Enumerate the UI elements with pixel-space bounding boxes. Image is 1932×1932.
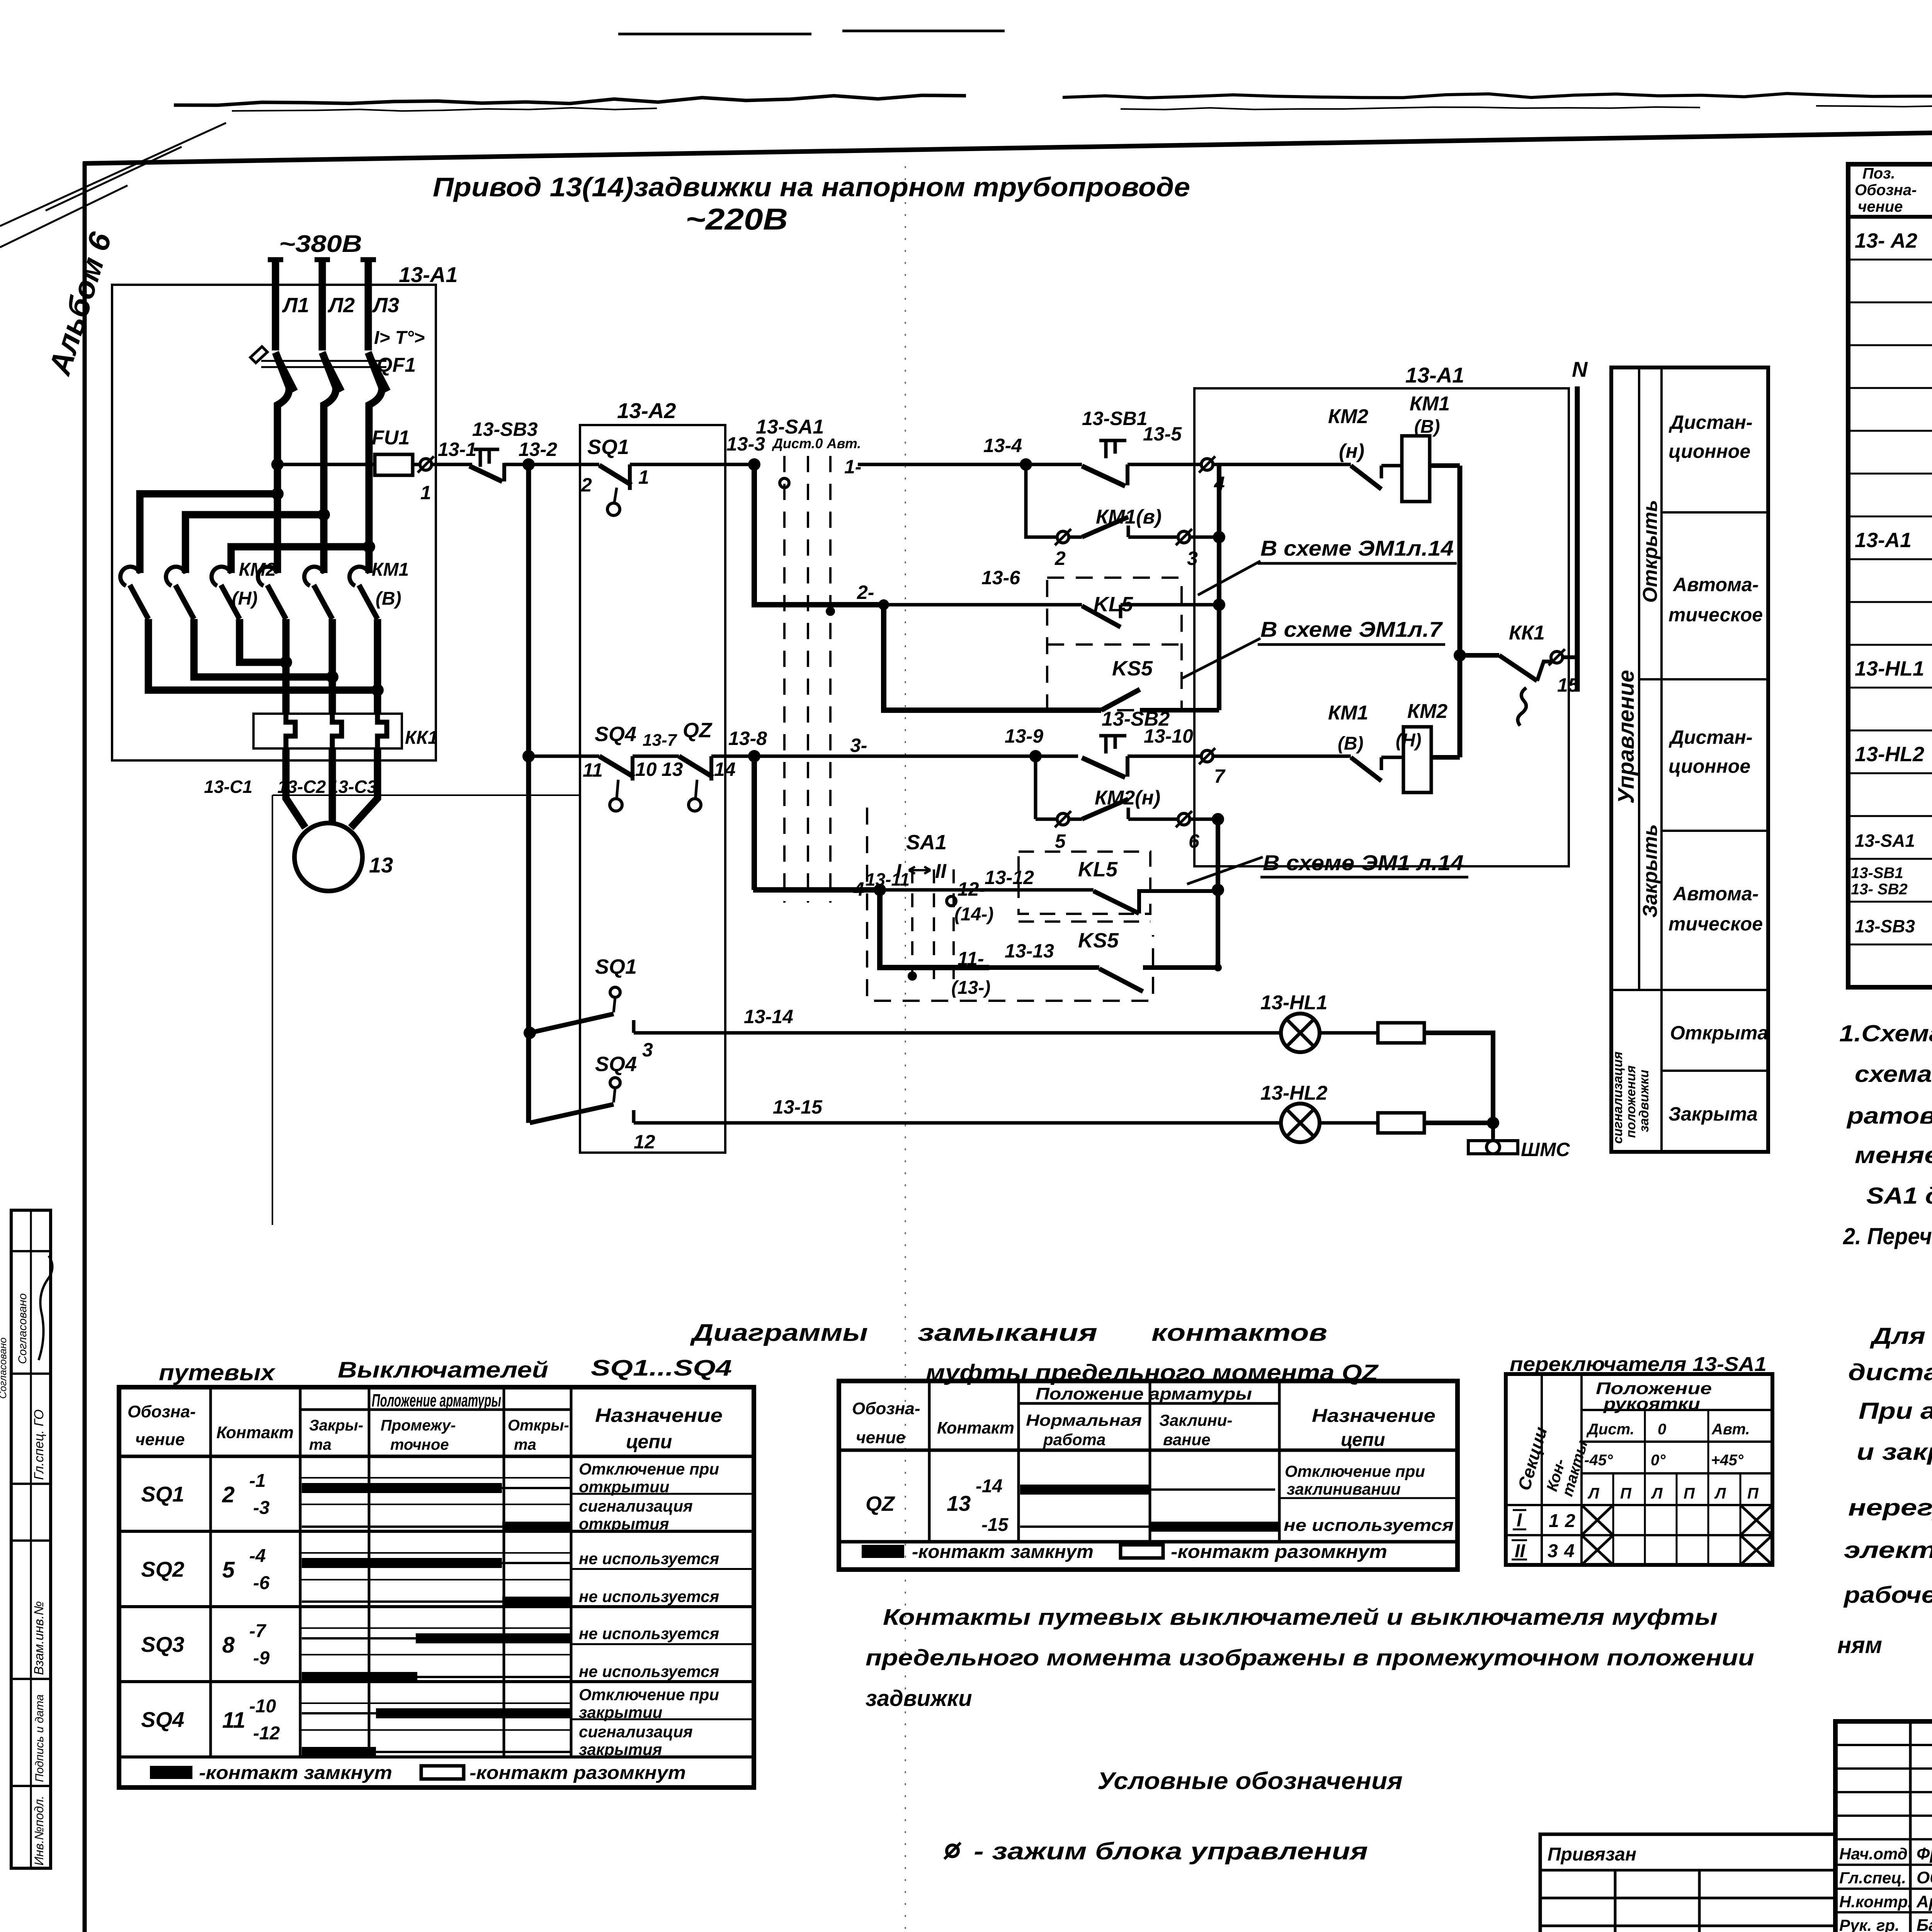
svg-text:Автома-: Автома- — [1672, 574, 1759, 595]
limit switch SQ4 lamp blade — [530, 1104, 614, 1123]
junction 13-2 — [522, 458, 535, 471]
terminal 1 — [420, 459, 432, 470]
svg-text:Открыта: Открыта — [1670, 1022, 1768, 1044]
phase line L1 — [268, 257, 283, 262]
svg-text:SQ4: SQ4 — [141, 1708, 184, 1732]
svg-text:-контакт замкнут: -контакт замкнут — [199, 1763, 392, 1783]
svg-text:При автоматическом управле: При автоматическом управлении задвижки о… — [1859, 1398, 1932, 1424]
svg-text:Привязан: Привязан — [1548, 1844, 1636, 1865]
bus 13-8 vertical — [752, 756, 757, 890]
svg-text:Нормальная: Нормальная — [1026, 1411, 1142, 1429]
junction KL5 bus — [1213, 599, 1225, 611]
svg-text:11: 11 — [222, 1708, 245, 1733]
SQ table half divider row 3 — [571, 1643, 754, 1645]
terminal 3 aux — [1178, 531, 1190, 543]
svg-text:13-11: 13-11 — [866, 869, 910, 889]
junction KK1 node — [1454, 649, 1466, 662]
svg-text:заклинивании: заклинивании — [1287, 1480, 1401, 1498]
svg-text:SQ4: SQ4 — [595, 1053, 637, 1076]
SQ table header polozhenie armatury — [300, 1408, 571, 1411]
wire terminal6 to bus — [1189, 818, 1218, 821]
svg-text:13- SB2: 13- SB2 — [1851, 881, 1908, 898]
wire coil KM1 to right bus — [1430, 463, 1460, 468]
right return bus lower — [1458, 655, 1463, 757]
svg-text:5: 5 — [1055, 830, 1066, 852]
svg-text:сигнализация: сигнализация — [579, 1497, 693, 1515]
wire aux KM1v — [1068, 536, 1082, 539]
wire KM2n aux row entry — [1036, 818, 1058, 821]
svg-text:13-15: 13-15 — [773, 1096, 823, 1118]
SQ4 bar upper closed — [376, 1708, 571, 1718]
wire terminal4 to KM2 contact — [1213, 463, 1351, 466]
svg-text:SQ2: SQ2 — [141, 1557, 184, 1582]
aux contact KM2n fixed — [1380, 466, 1383, 478]
wire crossover feed KM2 pole 2 — [185, 515, 324, 573]
svg-text:открытия: открытия — [579, 1515, 669, 1533]
svg-text:и закрываются от уровня вкл: и закрываются от уровня включения I рабо… — [1857, 1439, 1932, 1465]
svg-text:Л2: Л2 — [327, 294, 355, 317]
svg-text:KL5: KL5 — [1078, 858, 1118, 881]
wire phase 2 down — [322, 352, 336, 573]
limit switch SQ1 lever stem — [614, 488, 617, 502]
svg-text:-7: -7 — [249, 1621, 267, 1641]
svg-text:13-А1: 13-А1 — [1405, 363, 1464, 387]
relay contact KL5 fixed — [1119, 605, 1122, 618]
wire SB2 to terminal 7 — [1128, 755, 1202, 758]
contactor pole arc 4 — [258, 567, 277, 586]
svg-text:1: 1 — [638, 466, 649, 488]
svg-text:рабочего насоса при работе: рабочего насоса при работе по дискретным… — [1843, 1582, 1932, 1608]
svg-text:13-13: 13-13 — [1005, 940, 1054, 962]
svg-text:замыкания: замыкания — [918, 1320, 1097, 1346]
aux contact KM1v fixed — [1127, 526, 1130, 537]
right return bus upper — [1458, 466, 1463, 655]
svg-text:QZ: QZ — [683, 719, 713, 742]
svg-text:Обозна-: Обозна- — [852, 1399, 920, 1418]
privyazan box outer — [1540, 1834, 1835, 1932]
aux contact KM1B fixed — [1380, 757, 1383, 770]
svg-text:Н.контр.: Н.контр. — [1839, 1893, 1912, 1911]
svg-text:12: 12 — [634, 1131, 655, 1153]
wire row4 from bus — [753, 887, 880, 893]
box 13-A2 — [580, 425, 725, 1153]
svg-text:Взам.инв.№: Взам.инв.№ — [32, 1601, 46, 1675]
phase line L3 — [361, 257, 376, 262]
svg-text:не используется: не используется — [579, 1549, 719, 1568]
svg-text:13: 13 — [369, 853, 393, 877]
svg-text:QZ: QZ — [866, 1492, 895, 1515]
svg-text:11-: 11- — [957, 948, 984, 969]
svg-text:Контакт: Контакт — [937, 1418, 1014, 1437]
svg-text:Дистан-: Дистан- — [1668, 726, 1753, 748]
wire KL5 to bus — [1121, 603, 1219, 607]
terminal 7 — [1201, 750, 1213, 762]
svg-text:-контакт разомкнут: -контакт разомкнут — [1171, 1542, 1387, 1562]
junction lamp row1 — [524, 1027, 536, 1039]
QZ table header polozhenie armatury line — [1019, 1402, 1279, 1405]
wire aux KM2n2 — [1128, 818, 1179, 821]
junction swap pole1 — [371, 684, 384, 696]
torque switch QZ lever circle — [689, 799, 701, 811]
svg-text:тическое: тическое — [1668, 913, 1763, 935]
svg-text:Привод 13(14)задвижки на нап: Привод 13(14)задвижки на напорном трубоп… — [433, 172, 1190, 202]
junction 13-9 — [1029, 750, 1042, 762]
svg-text:- зажим блока управления: - зажим блока управления — [974, 1838, 1368, 1865]
limit switch SQ4 fixed — [631, 756, 634, 781]
scan streak wavy top band — [174, 95, 966, 105]
wire 13-14 — [634, 1031, 1281, 1035]
SA1 table header row line 1 — [1582, 1409, 1772, 1411]
left stamp signature — [39, 1256, 53, 1360]
svg-text:Контакты путевых выключател: Контакты путевых выключателей и выключат… — [883, 1605, 1718, 1630]
svg-text:SA1 для привода 14 приведен: SA1 для привода 14 приведены в скобках. — [1866, 1183, 1932, 1209]
svg-text:КМ1: КМ1 — [1328, 702, 1368, 724]
resistor lamp2 — [1378, 1113, 1424, 1133]
svg-text:задвижки: задвижки — [1637, 1070, 1651, 1132]
svg-text:13-4: 13-4 — [983, 435, 1022, 456]
bus vertical from terminal 4 — [1217, 464, 1221, 710]
svg-text:-контакт разомкнут: -контакт разомкнут — [469, 1763, 686, 1783]
bus 13-3 vertical — [754, 464, 884, 605]
svg-text:Обозна-: Обозна- — [1855, 182, 1917, 199]
QZ bar lower open thin — [1020, 1526, 1150, 1528]
svg-text:13-12: 13-12 — [985, 867, 1034, 888]
svg-text:ШМС: ШМС — [1521, 1139, 1570, 1160]
svg-text:2: 2 — [581, 474, 592, 496]
wire SQ4 to QZ — [633, 755, 679, 758]
note v sheme EM1 l7 leader — [1182, 638, 1260, 678]
junction SHMS — [1487, 1117, 1499, 1129]
svg-text:SQ4: SQ4 — [595, 723, 636, 746]
svg-text:(В): (В) — [1338, 733, 1364, 754]
svg-text:В схеме ЭМ1л.14: В схеме ЭМ1л.14 — [1260, 536, 1454, 560]
QZ table column lines — [928, 1381, 931, 1542]
signal table row lines — [1662, 511, 1768, 514]
button 13-SB2 actuator — [1099, 736, 1126, 753]
relay contact KL5 lower blade — [1094, 891, 1139, 913]
limit switch SQ4 lever circle — [610, 799, 622, 811]
svg-text:КМ2: КМ2 — [1407, 700, 1447, 723]
svg-text:2. Перечень элементов приведе: 2. Перечень элементов приведен на один п… — [1843, 1223, 1932, 1249]
left stamp column dividers — [30, 1210, 32, 1868]
svg-text:~220В: ~220В — [685, 202, 788, 236]
wire KM1 pole outputs down — [286, 619, 378, 714]
junction 13-11 — [874, 884, 886, 896]
svg-text:В схеме ЭМ1 л.14: В схеме ЭМ1 л.14 — [1263, 850, 1464, 875]
svg-text:та: та — [514, 1436, 536, 1453]
breaker QF1 blade 3 — [368, 352, 388, 391]
QZ legend open — [1121, 1545, 1163, 1558]
wire motor leads — [286, 748, 378, 828]
signal table outer box — [1611, 367, 1768, 1152]
wire to SHMS — [1491, 1123, 1495, 1141]
svg-text:точное: точное — [390, 1436, 449, 1453]
junction 13-3 — [748, 458, 760, 471]
svg-text:13-1: 13-1 — [438, 439, 476, 460]
svg-text:Назначение: Назначение — [1312, 1406, 1435, 1426]
selector terminal circle 12 — [947, 896, 956, 906]
svg-text:-контакт замкнут: -контакт замкнут — [912, 1542, 1094, 1562]
junction 13-8 — [748, 750, 760, 762]
title block left column lines — [1909, 1721, 1912, 1932]
svg-text:QF1: QF1 — [377, 354, 416, 376]
svg-text:13-А1: 13-А1 — [1855, 529, 1912, 552]
SQ diagram thin guides row 4 — [300, 1702, 571, 1704]
wire terminal 15 to N — [1563, 655, 1577, 659]
svg-text:Л3: Л3 — [372, 294, 399, 317]
svg-text:П: П — [1620, 1485, 1632, 1502]
wire QZ to node 13-8 — [711, 755, 754, 758]
junction 2- — [878, 599, 889, 610]
wire button to node 13-2 — [504, 463, 529, 466]
aux contact KM2n2 fixed — [1127, 808, 1130, 819]
svg-text:13-8: 13-8 — [728, 728, 767, 749]
wire fuse to terminal — [413, 463, 419, 466]
svg-text:SQ1...SQ4: SQ1...SQ4 — [591, 1355, 732, 1381]
SQ4 bar lower closed — [302, 1747, 376, 1757]
svg-text:вание: вание — [1163, 1430, 1211, 1449]
svg-text:II: II — [935, 860, 947, 883]
svg-text:Рук. гр.: Рук. гр. — [1839, 1916, 1900, 1932]
svg-text:13-2: 13-2 — [519, 439, 557, 460]
wire to fuse FU1 — [277, 463, 375, 466]
switch SA1 dashed column 2 — [807, 456, 809, 903]
wire resistor1 to corner — [1424, 1033, 1493, 1123]
svg-text:цепи: цепи — [626, 1431, 672, 1452]
SA1 table header row line 4 — [1506, 1504, 1772, 1506]
thermal contact KK1 blade — [1499, 655, 1537, 681]
wire 13-15 — [634, 1121, 1281, 1125]
wire KM2 pole1 output swap — [148, 619, 378, 690]
svg-text:открытии: открытии — [579, 1478, 669, 1496]
SA1 cross II avt P — [1740, 1535, 1772, 1565]
svg-text:нерегулируемого насоса при р: нерегулируемого насоса при работе с регу… — [1848, 1495, 1932, 1520]
svg-text:13-HL2: 13-HL2 — [1260, 1082, 1327, 1104]
wire terminal to button — [432, 463, 472, 466]
wire KM2 contact to coil KM1 — [1381, 464, 1402, 468]
svg-text:8: 8 — [222, 1633, 235, 1658]
wire terminal7 to KM1 contact — [1213, 755, 1351, 758]
SQ3 bar lower open thin — [417, 1676, 571, 1678]
svg-text:0: 0 — [1658, 1421, 1666, 1438]
svg-text:КК1: КК1 — [405, 728, 438, 748]
svg-text:(13-): (13-) — [951, 978, 990, 998]
svg-text:ратов и маркировки цепей, об: ратов и маркировки цепей, обозначающая н… — [1846, 1103, 1932, 1129]
SQ3 bar lower closed — [302, 1672, 417, 1682]
svg-text:не используется: не используется — [579, 1624, 719, 1643]
SA1 table col sektsii line — [1541, 1374, 1543, 1565]
svg-text:та: та — [309, 1436, 332, 1453]
relay contact KL5 lower step — [1139, 891, 1218, 913]
SQ3 bar upper closed — [416, 1633, 571, 1643]
SA1 cross II dist L — [1582, 1535, 1613, 1565]
svg-text:КМ2: КМ2 — [1328, 405, 1368, 428]
SQ2 bar lower closed — [502, 1597, 571, 1607]
terminal 2 aux — [1057, 531, 1069, 543]
SQ diagram thin guides row 1 — [300, 1477, 571, 1478]
relay dashed box lower — [1019, 852, 1150, 914]
svg-text:-1: -1 — [249, 1471, 266, 1491]
wire lamp2 to resistor — [1320, 1121, 1378, 1125]
svg-text:SA1: SA1 — [906, 831, 947, 854]
aux contact KM2n blade — [1351, 466, 1381, 489]
svg-text:не используется: не используется — [579, 1662, 719, 1680]
panel boundary line horizontal — [272, 794, 580, 796]
wire crossover feed KM2 pole 3 — [231, 547, 369, 573]
SA1 table col kontakty line — [1580, 1374, 1583, 1565]
svg-text:Отключение при: Отключение при — [1285, 1462, 1425, 1480]
svg-text:Выключателей: Выключателей — [338, 1357, 548, 1383]
socket SHMS symbol — [1468, 1141, 1491, 1154]
phase line L2 — [315, 257, 330, 262]
svg-text:5: 5 — [222, 1558, 235, 1583]
wire row 13-6 — [884, 603, 1082, 607]
scan streak top left corner diagonals — [0, 123, 226, 247]
svg-text:Назначение: Назначение — [595, 1405, 723, 1426]
terminal 5 aux — [1057, 813, 1069, 825]
SQ table half divider row 1 — [571, 1493, 754, 1495]
SQ table row lines — [119, 1530, 754, 1533]
note underline 2 — [1258, 643, 1445, 646]
svg-text:Нач.отд: Нач.отд — [1839, 1845, 1908, 1863]
SQ2 bar lower open thin — [302, 1600, 502, 1603]
junction swap pole2 — [326, 671, 338, 683]
QZ bar upper closed — [1020, 1485, 1150, 1495]
svg-text:Авт.: Авт. — [1711, 1421, 1750, 1438]
svg-text:13-SB1: 13-SB1 — [1082, 408, 1148, 429]
parts table outer box — [1848, 164, 1932, 987]
wire 13-12 row — [880, 888, 1094, 892]
svg-text:-15: -15 — [981, 1515, 1009, 1535]
contactor pole blade 5 — [314, 585, 332, 619]
svg-text:13-5: 13-5 — [1143, 423, 1182, 445]
svg-text:цепи: цепи — [1341, 1430, 1385, 1450]
wire branch KM1v down — [1026, 464, 1058, 537]
SQ table legend closed — [150, 1766, 192, 1779]
signal table column line 1 — [1638, 367, 1640, 990]
wire 13-11 branch down — [880, 890, 989, 968]
limit switch SQ1 lamp stem — [614, 997, 615, 1012]
breaker QF1 linkage — [261, 360, 386, 362]
svg-text:1.Схема приведена для привода: 1.Схема приведена для привода 13 задвижк… — [1839, 1020, 1932, 1046]
title block revision rows — [1835, 1744, 1932, 1746]
svg-text:Закрыта: Закрыта — [1668, 1103, 1758, 1125]
svg-text:сигнализация: сигнализация — [579, 1723, 693, 1741]
svg-text:дистанционное со шкафа упр: дистанционное со шкафа управления и авто… — [1848, 1359, 1932, 1385]
wire SQ1 to node 13-3 — [630, 463, 754, 466]
aux contact KM2n2 blade — [1082, 799, 1128, 819]
contactor pole blade 4 — [267, 585, 286, 619]
junction KL5 lower bus — [1212, 884, 1224, 896]
svg-text:Положение арматуры: Положение арматуры — [1036, 1384, 1252, 1403]
selector dot lower — [908, 971, 917, 981]
wire node to KK1 contact — [1460, 653, 1499, 658]
wire KS5 to bus — [1140, 708, 1219, 713]
svg-text:13-SB3: 13-SB3 — [472, 418, 538, 440]
junction phase2 KM2 feed — [318, 509, 330, 521]
SQ table half divider row 4 — [571, 1718, 754, 1720]
svg-text:(Н): (Н) — [232, 588, 258, 609]
selector SA1 arrow — [909, 867, 930, 874]
svg-text:Обозна-: Обозна- — [128, 1402, 196, 1421]
wire coil KM2 to right bus — [1431, 755, 1460, 760]
svg-text:меняется на 14. Номера ко: меняется на 14. Номера контактов переклю… — [1855, 1142, 1932, 1168]
svg-text:SQ1: SQ1 — [141, 1482, 184, 1506]
svg-text:10: 10 — [635, 759, 657, 780]
svg-text:Закры-: Закры- — [309, 1417, 363, 1434]
wire resistor2 to node — [1424, 1121, 1493, 1125]
svg-text:(В): (В) — [1414, 417, 1440, 437]
svg-text:путевых: путевых — [159, 1360, 276, 1385]
svg-text:7: 7 — [1214, 765, 1226, 787]
wire row3 — [754, 755, 1078, 758]
SQ table half divider row 2 — [571, 1568, 754, 1570]
svg-text:I: I — [1517, 1510, 1522, 1531]
limit switch SQ4 lever stem — [617, 780, 618, 798]
junction 13-4 — [1020, 458, 1032, 471]
svg-text:Дист.0 Авт.: Дист.0 Авт. — [772, 435, 861, 451]
svg-text:чение: чение — [856, 1428, 905, 1447]
wire SB1 to terminal 4 — [1128, 463, 1202, 466]
svg-text:чение: чение — [1858, 198, 1903, 215]
svg-text:KS5: KS5 — [1112, 657, 1153, 680]
svg-text:13: 13 — [947, 1491, 971, 1515]
note v sheme EM1 l14 lower leader — [1187, 857, 1263, 884]
svg-text:Открыть: Открыть — [1639, 500, 1662, 603]
svg-text:В схеме ЭМ1л.7: В схеме ЭМ1л.7 — [1260, 617, 1443, 641]
svg-text:Диаграммы: Диаграммы — [690, 1320, 868, 1346]
breaker QF1 blade 2 — [322, 352, 342, 391]
wire 13-13 row — [989, 965, 1099, 970]
contactor pole arc 5 — [304, 567, 324, 586]
svg-text:11: 11 — [583, 759, 603, 781]
QZ table half divider — [1279, 1497, 1458, 1499]
svg-text:II: II — [1515, 1541, 1526, 1561]
svg-text:13: 13 — [662, 759, 683, 780]
button 13-SB3 fixed contact — [502, 463, 506, 481]
wire branch KM2n down — [1034, 756, 1037, 819]
torque switch QZ fixed — [709, 756, 713, 781]
svg-text:13-SB1: 13-SB1 — [1851, 864, 1903, 881]
QZ legend closed — [862, 1545, 904, 1558]
switch SA1 dashed column 3 — [829, 456, 832, 903]
svg-text:(В): (В) — [376, 588, 401, 609]
lamp 13-HL1 — [1281, 1014, 1320, 1052]
svg-text:Поз.: Поз. — [1862, 165, 1895, 182]
SQ table column lines — [209, 1387, 212, 1757]
button 13-SB3 blade — [469, 466, 502, 481]
svg-text:тическое: тическое — [1668, 604, 1763, 626]
svg-text:(14-): (14-) — [954, 904, 993, 925]
relay contact KS5 blade — [1101, 689, 1140, 710]
control box 13-A1 — [1194, 388, 1569, 866]
svg-text:13-SA1: 13-SA1 — [756, 416, 824, 438]
SQ table header line — [119, 1455, 754, 1458]
svg-text:Л1: Л1 — [282, 294, 309, 317]
relay contact KL5 blade — [1082, 606, 1121, 627]
svg-text:Дистан-: Дистан- — [1668, 412, 1753, 433]
svg-text:2: 2 — [1565, 1511, 1575, 1531]
limit switch SQ1 blade — [599, 465, 631, 485]
svg-text:Контакт: Контакт — [216, 1423, 294, 1442]
contactor pole arc 1 — [120, 567, 140, 586]
contactor pole blade 1 — [130, 585, 148, 619]
svg-text:закрытии: закрытии — [579, 1703, 662, 1721]
wire crossover feed KM2 pole 1 — [140, 494, 277, 573]
svg-text:Л: Л — [1587, 1485, 1600, 1502]
selector dashed column a — [911, 869, 913, 989]
switch SA1 dashed column 1 — [783, 456, 786, 903]
